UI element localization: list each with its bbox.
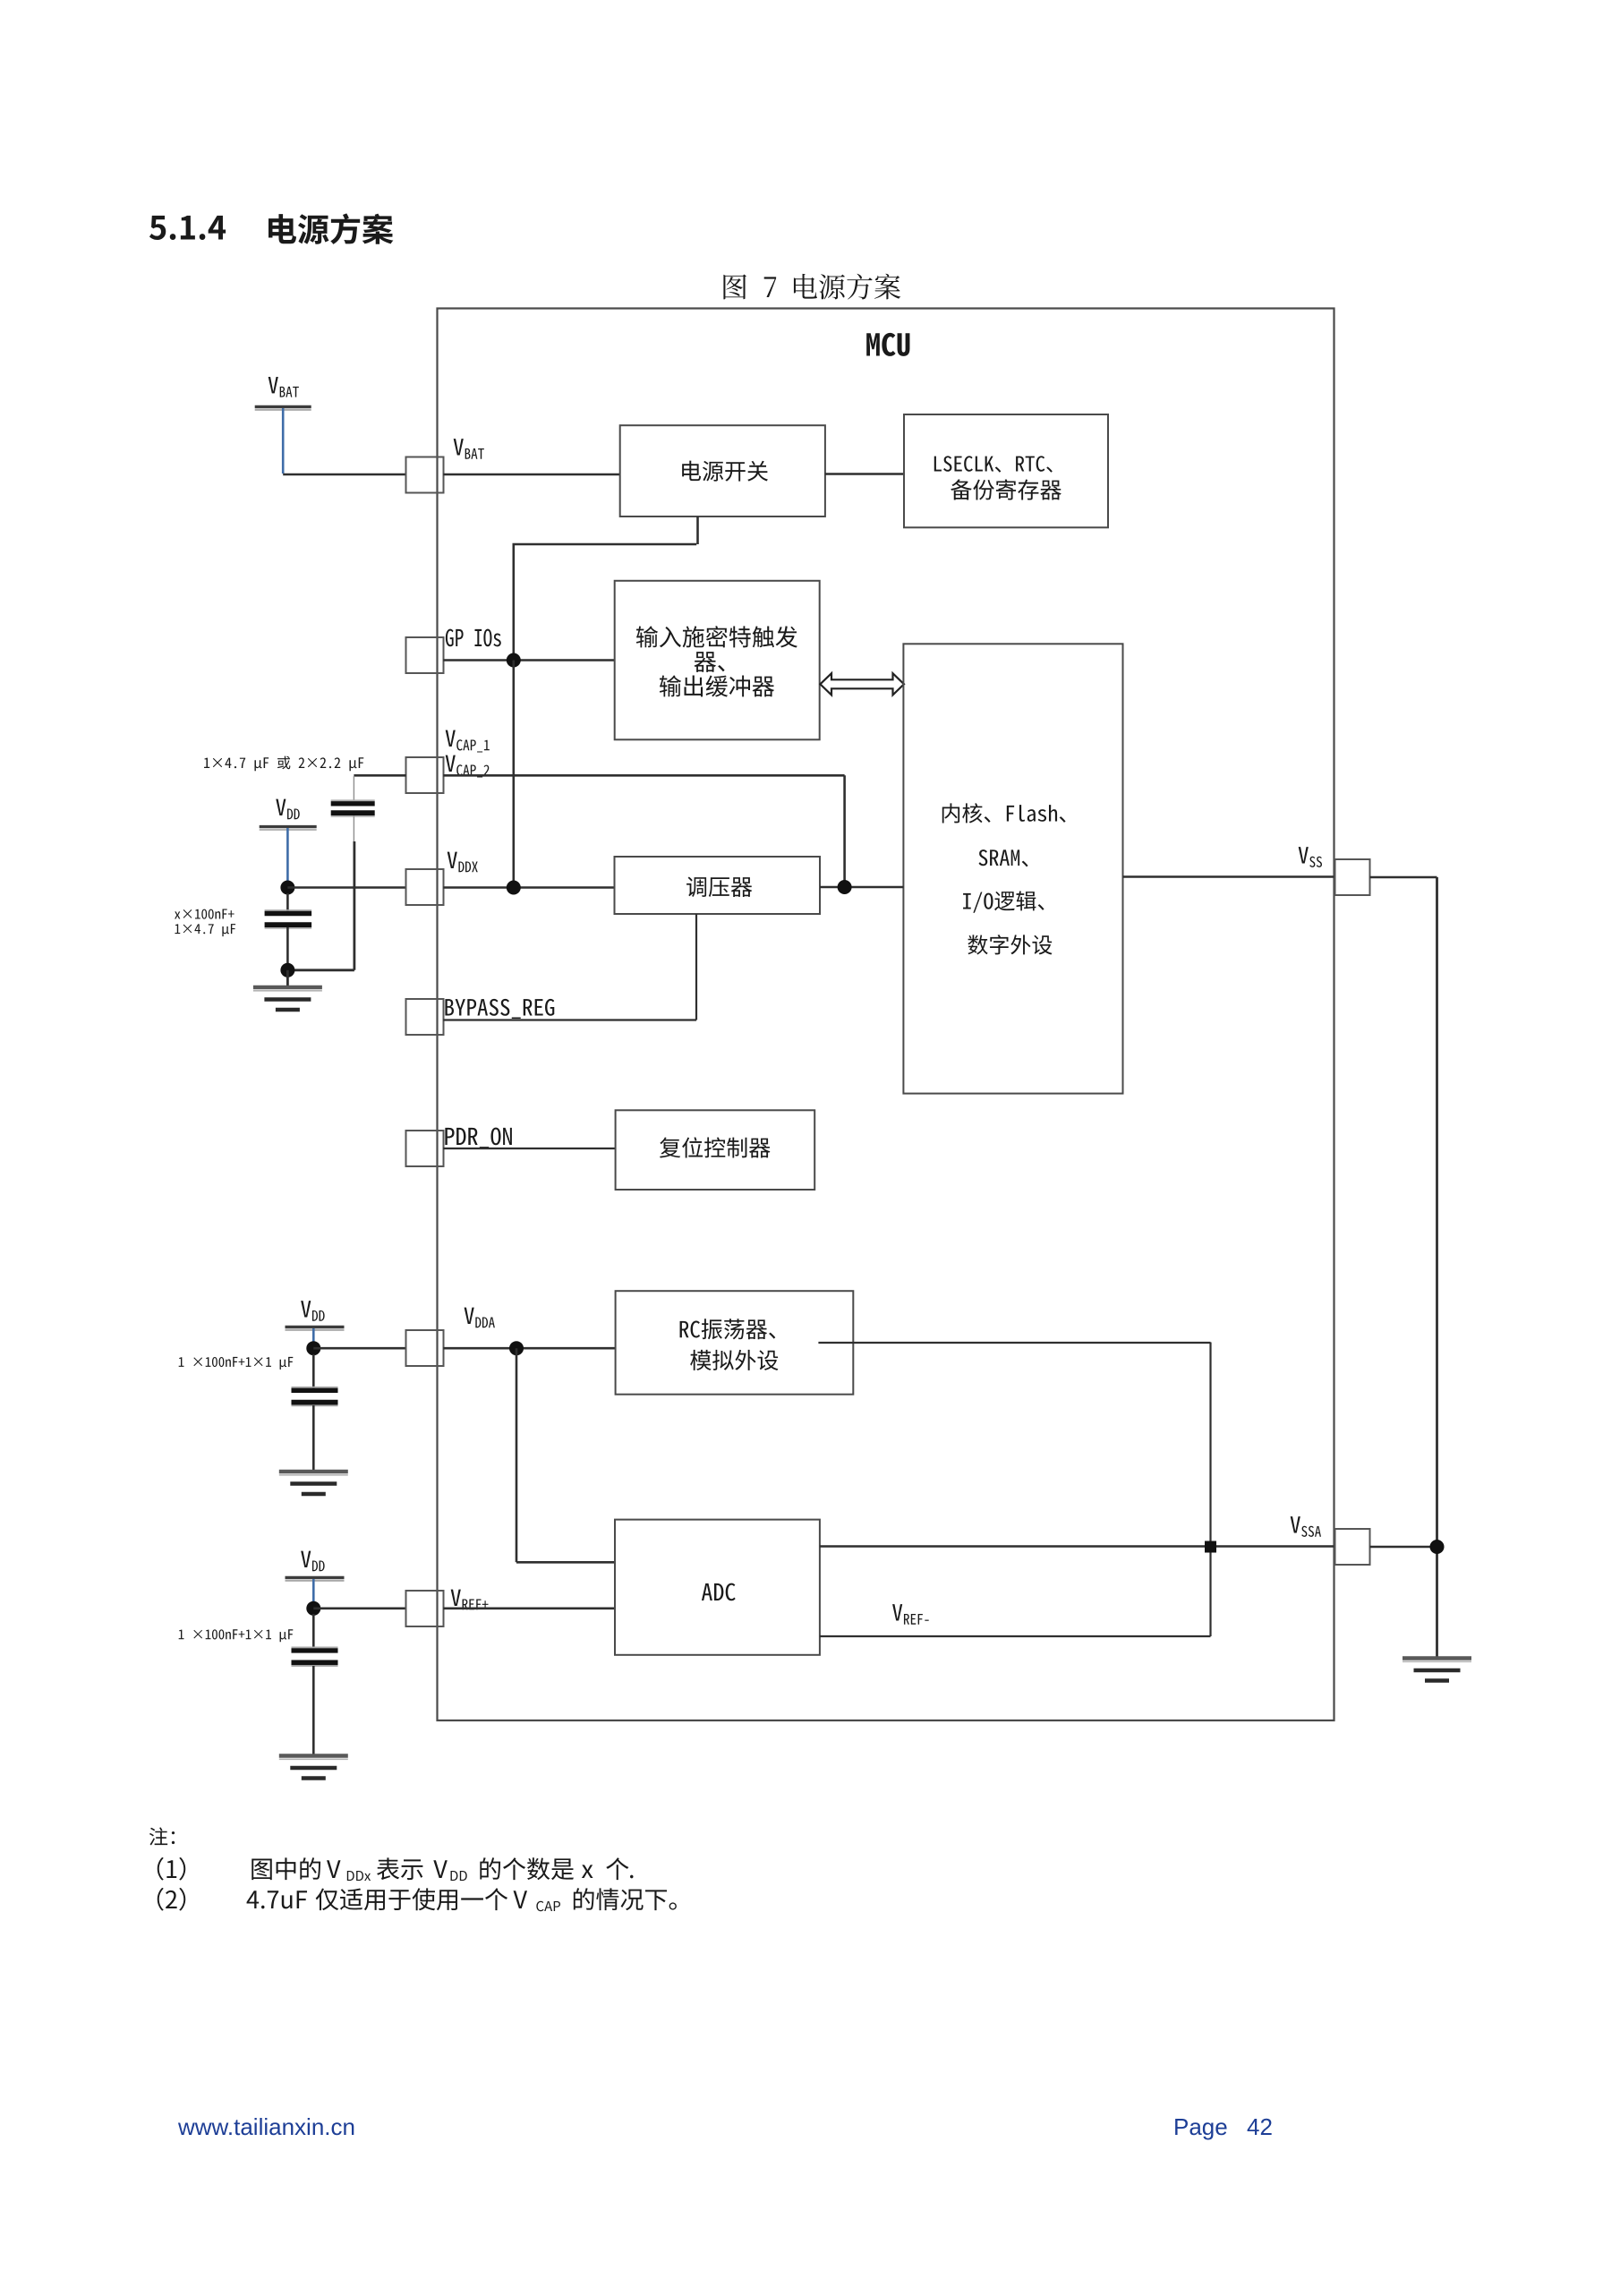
block U1 power switch 电源开关 [620,425,825,516]
block U5 voltage regulator 调压器 [615,857,821,914]
block U3 input schmitt trigger / output buffer [615,581,820,740]
svg-text:42: 42 [1247,2113,1273,2140]
pin label PDR_ON [445,1128,512,1148]
wire VDD node to VDDX pin [287,886,405,889]
figure caption 图 7 电源方案 [723,274,900,300]
wire VDDA node down to ADC [516,1348,615,1562]
pin PDR_ON [406,1131,444,1166]
wire power switch bottom to GPIO net [513,516,698,661]
pin BYPASS_REG [406,999,444,1035]
pin label VCAP_1 [446,730,490,753]
wire BYPASS_REG to regulator bottom [443,914,696,1020]
value label 1x100nF+1x1uF (VREF) [179,1629,294,1642]
wire VREF+ pin to ADC [443,1608,615,1610]
wire VDDA supply lead (blue) [312,1328,315,1348]
node VREF supply junction [306,1601,320,1616]
node C2 ground junction [280,963,294,977]
ground symbol (right rail) [1403,1659,1471,1681]
value label 1x100nF+1x1uF (VDDA) [179,1357,294,1370]
wire VBAT supply lead (blue) [282,408,285,474]
wire PDR_ON to reset controller [443,1148,615,1149]
pin label VREF+ [451,1590,489,1610]
net label VREF- [892,1604,929,1625]
block U2 LSECLK RTC backup registers [904,414,1108,527]
svg-text:Page: Page [1173,2113,1228,2140]
wire VSS pin to ground rail [1370,876,1437,879]
wire C1 bottom to ground node [287,841,354,970]
pin label VSSA [1291,1516,1321,1537]
VBAT supply symbol [255,377,311,410]
value label x*100nF+1*4.7uF [175,909,235,936]
wire ground stem [286,970,289,986]
section heading 5.1.4 电源方案 [149,213,393,243]
ground symbol (VDDA branch) [279,1472,348,1494]
wire VREF node to pin [313,1608,405,1610]
block U6 reset controller 复位控制器 [616,1110,815,1190]
block U8 ADC [615,1520,820,1655]
wire external cap to VCAP pin [354,774,405,777]
wire VDD supply lead (blue) [286,828,289,888]
block U4 core Flash SRAM IO logic digital peripherals [903,644,1122,1093]
wire power switch to LSECLK block [825,473,904,475]
node VDDA supply junction [306,1341,320,1355]
wire VCAP pin to regulator output node [443,775,844,887]
wire GPIOs pin to schmitt block [443,659,614,661]
node VSSA ground rail junction [1430,1540,1445,1554]
node VDDA internal junction [509,1341,524,1355]
pin label BYPASS_REG [445,999,554,1019]
pin label VCAP_2 [446,755,490,778]
wire VBAT pin to power switch [443,474,619,476]
pin label VBAT [454,439,484,459]
svg-text:www.tailianxin.cn: www.tailianxin.cn [177,2113,355,2140]
bidirectional bus arrow between schmitt and core [820,673,904,695]
VDD supply symbol (VREF branch) [286,1551,345,1581]
VDD supply symbol (upper) [260,799,317,830]
pin VBAT [406,457,444,493]
wire right ground rail (vertical) [1436,877,1438,1658]
MCU outline box [438,309,1334,1721]
wire VDDA node to pin [313,1347,405,1350]
pin GPIOs [406,637,444,673]
note line 2 [158,1888,677,1911]
ground symbol (VDD branch) [253,987,322,1010]
node VDDX junction [507,881,521,895]
ground symbol (VREF branch) [279,1756,348,1779]
node GPIO junction [507,653,521,668]
pin VREF+ [406,1591,444,1626]
capacitor C2 VDD decoupling [265,893,312,963]
pin VDDX [406,869,444,905]
wire regulator output to core [820,886,903,889]
wire core to VSS pin [1123,875,1336,878]
pin VCAP_1 / VCAP_2 [406,757,444,793]
wire VREF supply lead (blue) [312,1579,315,1609]
node VDD junction [280,881,294,895]
wire ADC VREF- return [820,1635,1211,1637]
value label 1x4.7uF or 2x2.2uF [204,756,363,772]
pin label VSS [1299,847,1322,867]
wire ADC to VSSA pin [820,1545,1335,1547]
pin label GP IOs [446,629,501,647]
node regulator output junction [838,880,852,894]
pin label VDDA [465,1308,495,1328]
block U7 RC oscillator / analog peripherals [616,1291,854,1395]
MCU label [866,333,909,356]
note marker 注： [149,1827,175,1845]
capacitor C4 VREF decoupling [292,1614,338,1754]
wire VDDX pin to regulator [443,886,614,889]
junction VSSA rail (square) [1205,1541,1216,1553]
VDD supply symbol (VDDA branch) [286,1301,345,1330]
pin VSS [1335,859,1370,895]
wire RC oscillator to VSSA rail [818,1343,1210,1637]
pin VDDA [406,1330,444,1366]
wire VSSA pin to ground rail [1370,1546,1437,1549]
capacitor C1 VCAP decoupling [331,776,375,841]
capacitor C3 VDDA decoupling [292,1354,338,1470]
wire GPIO node down to VDDX node [512,661,515,888]
pin label VDDX [448,852,478,873]
pin VSSA [1335,1529,1370,1565]
wire VBAT supply to pin [283,474,405,476]
note line 1 [158,1857,634,1881]
wire VDDA pin to RC oscillator [443,1347,615,1350]
